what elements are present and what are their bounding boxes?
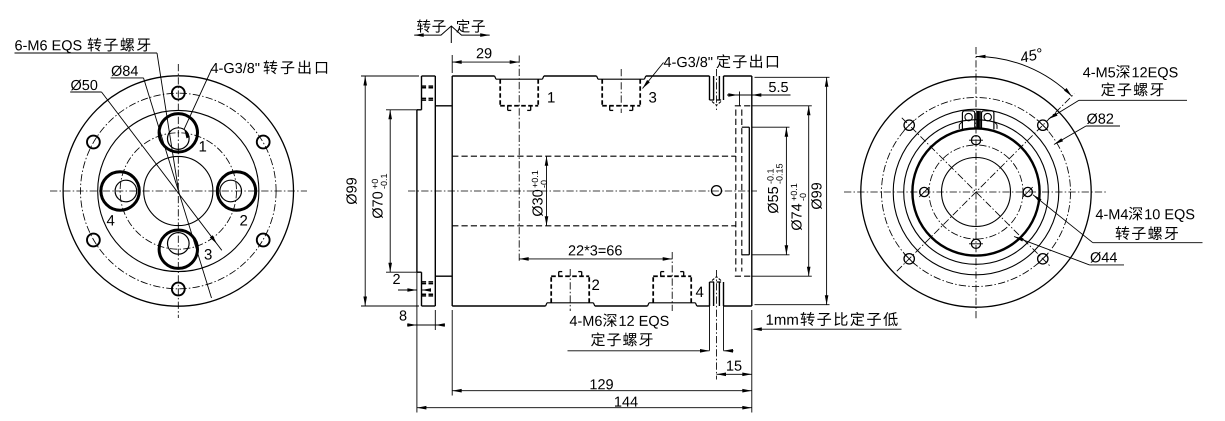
- right view: circle D62: [904, 120, 1049, 265]
- left view: G3/8 rotor port 2 bore circle: [220, 180, 242, 202]
- right view: diagonal centerline NE-SW: [897, 94, 1075, 272]
- right view: cable clamp tabs at top: [962, 111, 974, 130]
- mid view port number 2: [592, 280, 599, 290]
- right view: vertical centerline: [975, 47, 977, 320]
- left view: vertical centerline: [177, 64, 179, 318]
- label D44: [1091, 252, 1101, 263]
- left view: center bore circle D30: [144, 156, 213, 225]
- leader D44 to D44 circle: [1014, 237, 1090, 265]
- left view: port number 1: [200, 141, 206, 151]
- 45 degree angular dimension arc: [976, 57, 1072, 97]
- dim 5.5 top right: [739, 92, 741, 107]
- left view: G3/8 rotor port 4 bore circle: [115, 180, 137, 202]
- right end: rotor face (1mm recessed): [748, 127, 750, 255]
- label 4-G3/8 stator outlet: [664, 57, 671, 67]
- stator outlet thread at top right (15 from face): [709, 76, 711, 100]
- mid view port number 3: [649, 92, 656, 103]
- right view: M4 hole at 180 deg on D44: [920, 187, 929, 196]
- stator body top edge: [452, 75, 494, 77]
- hidden bore D30 lines: [452, 155, 736, 157]
- left view: M6 hole 4 on bolt circle: [172, 283, 185, 296]
- clamp tab screw holes: [965, 113, 972, 120]
- port 4 centerline: [671, 252, 673, 311]
- right view: M4 hole at 90 deg on D44: [971, 136, 980, 145]
- label 4-M4 deep 10 EQS rotor thread: [1096, 209, 1103, 219]
- top stub centerline: [716, 69, 718, 110]
- stator body bottom edge: [452, 305, 545, 307]
- right view: M4 hole at 0 deg on D44: [1023, 187, 1032, 196]
- rotor hub D74 between flange and stator: [435, 105, 452, 107]
- left view: G3/8 rotor port 4 thread circle: [101, 172, 139, 210]
- leader 4-M5 to NE hole: [1049, 100, 1080, 119]
- right end: D55 rotor edges: [742, 126, 750, 128]
- rotor/stator divider marker with arrows: [414, 26, 490, 35]
- label stator (dingzi): [456, 19, 469, 32]
- left view: M6 hole 5 on bolt circle: [87, 136, 100, 149]
- right view: M5 hole at 45 deg on D82: [1038, 120, 1048, 130]
- left view: M6 hole 6 on bolt circle: [87, 234, 100, 247]
- flange boss D70x2: [416, 110, 418, 272]
- stator outlet thread at bottom right: [709, 282, 711, 306]
- left view: G3/8 rotor port 3 thread circle: [159, 230, 197, 268]
- dim 129: [451, 310, 453, 396]
- mid view port number 1: [548, 92, 554, 102]
- left view: M6 hole 2 on bolt circle: [257, 136, 270, 149]
- left view: G3/8 rotor port 3 bore circle: [168, 233, 190, 255]
- right view: M5 hole at 135 deg on D82: [904, 120, 914, 130]
- port 4 threaded hole (bottom): [648, 303, 649, 306]
- clamp center bar: [977, 111, 980, 129]
- dim 22*3=66: [519, 258, 672, 260]
- label D50: [71, 80, 81, 91]
- right end: D74 counterbore hidden edges: [735, 105, 752, 107]
- right view: bore circle D30: [942, 158, 1011, 227]
- port 1 centerline: [518, 56, 520, 263]
- clamp tab feet: [959, 122, 962, 125]
- dim 144: [751, 310, 753, 413]
- label 4-G3/8 rotor outlet: [211, 63, 218, 73]
- dim D55 right with tolerance: [753, 126, 790, 128]
- right view: dash-dot circle D40: [929, 145, 1023, 239]
- dim D74 right with tolerance: [753, 105, 812, 107]
- dim 2 (boss thickness): [416, 272, 418, 412]
- left view: port number 4: [107, 215, 115, 225]
- port 3 threaded hole (top): [597, 76, 598, 79]
- right end: counterbore hidden verticals: [735, 110, 737, 272]
- label rotor (zhuanzi): [417, 19, 430, 32]
- label D84: [112, 65, 122, 76]
- label 4-M6 deep 12 EQS stator thread: [570, 316, 577, 326]
- leader D84: [144, 78, 212, 298]
- dim D99 left: [361, 75, 419, 77]
- main horizontal centerline of body: [408, 190, 757, 192]
- left view: G3/8 rotor port 1 bore circle: [168, 128, 190, 150]
- leader D82 to bolt circle: [1054, 126, 1086, 145]
- right view: M5 hole at 315 deg on D82: [1038, 254, 1048, 264]
- label 45 degrees: [1019, 48, 1043, 63]
- port 1 threaded hole (top): [495, 76, 496, 79]
- flange M6 thread hidden lines top: [422, 85, 436, 87]
- right view: M5 hole at 225 deg on D82: [904, 254, 914, 264]
- port 2 threaded hole (bottom): [546, 303, 547, 306]
- mid view port number 4: [696, 287, 704, 297]
- right view: rotor circle D55 (thick): [912, 128, 1039, 255]
- leader 4-M4 to E hole: [1033, 195, 1093, 243]
- leader 4-G3/8 to port 1 with arrow: [184, 70, 211, 130]
- bottom stub thread extension lines: [709, 306, 711, 351]
- dim D70 left with tolerance: [386, 109, 418, 111]
- dim 8 (flange total): [434, 310, 436, 330]
- left view: M6 hole 1 on bolt circle: [172, 87, 185, 100]
- port 2 centerline: [569, 269, 571, 311]
- left view: M6 hole 3 on bolt circle: [257, 234, 270, 247]
- right view: horizontal centerline: [844, 191, 1107, 193]
- label 6-M6 EQS rotor thread: [15, 40, 22, 50]
- small circle on centerline near right end: [712, 186, 722, 196]
- left view: rotor flange face - outer circle D99: [63, 76, 293, 306]
- leader D50 with arrow: [102, 92, 222, 250]
- right view: outer circle D99: [861, 77, 1091, 307]
- bottom stub centerline down to 15-dim: [716, 270, 718, 380]
- leader 6-M6 through top hole: [157, 53, 178, 190]
- flange M6 thread hidden lines bottom: [422, 281, 436, 283]
- label 1mm rotor lower than stator: [767, 314, 773, 324]
- label 4-M5 deep 12 EQS stator thread: [1083, 67, 1090, 77]
- port 3 centerline: [620, 69, 622, 113]
- left view: port pitch circle D50 (dash-dot): [120, 133, 236, 249]
- left view: G3/8 rotor port 1 thread circle: [159, 114, 197, 152]
- right view: circle D71: [893, 109, 1059, 275]
- right end: stator face: [751, 76, 753, 306]
- dim D30 with tolerance (rotated): [546, 156, 548, 226]
- left view: port number 2: [240, 215, 247, 225]
- right view: bolt circle D82 (dash-dot): [882, 98, 1071, 287]
- flange plate outline D99x6: [421, 76, 423, 110]
- stator left face: [451, 76, 453, 306]
- right view: M4 hole at 270 deg on D44: [971, 239, 980, 248]
- left view: horizontal centerline: [50, 190, 307, 192]
- dim 29: [451, 55, 453, 73]
- left view: boss circle D70: [98, 110, 259, 271]
- left view: port number 3: [205, 249, 212, 260]
- left view: bolt circle D84 (dash-dot): [81, 93, 277, 289]
- dim D99 right: [755, 76, 830, 78]
- label D82: [1087, 113, 1097, 124]
- left view: G3/8 rotor port 2 thread circle: [217, 172, 255, 210]
- leader 4-M6 with arrows at thread stub: [568, 350, 710, 352]
- dim 15: [717, 373, 752, 375]
- leader to port 3 with arrow: [643, 63, 664, 89]
- right view: diagonal centerline NW-SE: [902, 118, 1050, 266]
